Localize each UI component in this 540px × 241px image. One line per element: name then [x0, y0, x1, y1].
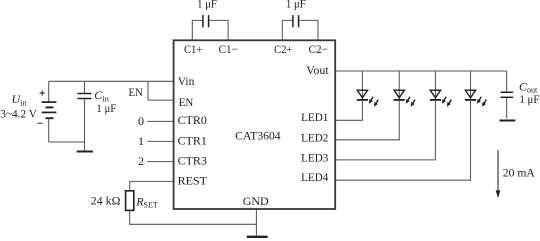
wire LED1 anode column: [361, 71, 363, 100]
svg-text:CTR0: CTR0: [178, 113, 207, 127]
ground symbol input side: [77, 151, 93, 153]
svg-text:LED4: LED4: [301, 170, 328, 184]
wire Cin top stub: [84, 81, 86, 93]
wire C1 right stub: [209, 20, 228, 40]
svg-text:20 mA: 20 mA: [503, 165, 535, 179]
wire Uin positive rail to Vin pin: [49, 80, 174, 82]
wire REST pin to RSET top: [130, 181, 174, 190]
LED D1: [357, 90, 378, 107]
wire battery negative terminal: [48, 118, 50, 142]
wire LED3 cathode to pin: [335, 101, 435, 160]
battery plus sign: [40, 90, 45, 95]
svg-text:EN: EN: [129, 85, 144, 99]
wire LED2 anode column: [398, 71, 400, 100]
capacitor C2 flying cap: [293, 15, 299, 27]
wire EN branch vertical from rail: [147, 81, 149, 100]
wire battery negative to Cin bottom: [49, 141, 85, 143]
svg-text:3~4.2 V: 3~4.2 V: [0, 106, 37, 120]
wire LED4 anode column: [470, 71, 472, 100]
wire Cout top stub: [506, 71, 508, 92]
svg-text:CAT3604: CAT3604: [235, 129, 281, 143]
svg-text:CTR3: CTR3: [178, 154, 207, 168]
svg-text:C1+: C1+: [184, 42, 203, 56]
ground symbol main: [247, 236, 268, 238]
battery U_in 3~4.2V: [42, 102, 57, 118]
svg-text:LED2: LED2: [301, 130, 328, 144]
LED D3: [430, 90, 451, 107]
wire Vout rail: [335, 70, 507, 72]
wire Cin bottom to ground: [84, 99, 86, 151]
svg-text:0: 0: [138, 114, 144, 128]
capacitor Cout: [501, 92, 513, 97]
svg-text:1 μF: 1 μF: [197, 0, 217, 11]
IC U1 CAT3604 body: [174, 40, 336, 209]
wire RSET bottom to ground rail: [130, 210, 257, 224]
capacitor C1 flying cap: [203, 15, 209, 27]
svg-text:2: 2: [138, 154, 144, 168]
svg-text:REST: REST: [178, 174, 208, 188]
resistor RSET: [126, 191, 134, 211]
svg-text:CTR1: CTR1: [178, 133, 207, 147]
wire LED2 cathode to pin: [335, 101, 399, 140]
current arrow 20 mA: [496, 150, 501, 198]
battery minus sign: [38, 122, 43, 124]
ground symbol output side: [500, 120, 516, 122]
LED D2: [394, 90, 415, 107]
wire LED4 cathode to pin: [335, 101, 470, 180]
wire EN branch to EN pin: [148, 99, 174, 101]
wire control input 1 to CTR1: [147, 140, 173, 142]
svg-text:C1−: C1−: [219, 42, 239, 56]
svg-text:EN: EN: [179, 95, 194, 109]
capacitor Cin: [78, 94, 92, 99]
svg-text:1 μF: 1 μF: [520, 92, 540, 106]
svg-text:1 μF: 1 μF: [286, 0, 306, 11]
svg-text:LED1: LED1: [301, 110, 328, 124]
svg-text:1 μF: 1 μF: [96, 101, 116, 115]
wire GND pin to ground: [255, 209, 257, 236]
wire LED3 anode column: [434, 71, 436, 100]
svg-text:C2+: C2+: [274, 42, 293, 56]
svg-text:GND: GND: [243, 194, 269, 208]
wire LED1 cathode to pin: [335, 101, 362, 121]
svg-text:LED3: LED3: [301, 150, 328, 164]
wire Cout bottom stub: [506, 98, 508, 119]
wire control input 2 to CTR3: [147, 161, 173, 163]
svg-text:Vin: Vin: [178, 74, 195, 88]
wire C1 left stub: [192, 20, 202, 40]
wire C2 left stub: [282, 20, 292, 40]
svg-text:24 kΩ: 24 kΩ: [91, 194, 121, 208]
svg-text:1: 1: [138, 134, 144, 148]
wire control input 0 to CTR0: [147, 120, 173, 122]
LED D4: [465, 90, 486, 107]
wire C2 right stub: [299, 20, 318, 40]
svg-text:Vout: Vout: [306, 63, 329, 77]
svg-text:C2−: C2−: [309, 42, 329, 56]
wire battery positive terminal: [48, 81, 50, 101]
